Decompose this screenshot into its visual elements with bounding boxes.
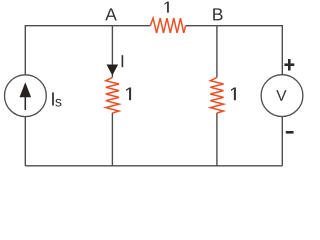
wire R2 bottom terminal down to bottom wire [111,113,113,166]
wire right: voltmeter down to bottom-right corner [281,117,283,166]
wire R3 bottom terminal down to bottom wire [216,113,218,166]
node A label [105,8,117,20]
plus terminal mark [284,59,294,71]
current source arrow (points up) [20,82,32,110]
current label I [122,55,124,67]
label Is: I [52,92,54,105]
wire top: R1 right terminal to node B [186,25,217,27]
resistor R1 (horizontal, between A and B) [150,18,185,33]
label Is: s subscript [55,99,61,107]
wire left: top corner down to current source [24,25,26,75]
wire top: left corner to node A [25,25,112,27]
wire bottom: bottom-left corner to bottom-right corner [25,165,282,167]
voltmeter V letter [276,90,286,101]
node B label [213,8,222,20]
wire right: top-right corner down to voltmeter [281,25,283,75]
wire node B branch down to R3 top terminal [216,26,218,78]
minus terminal mark [286,131,294,134]
wire top: node A to R1 left terminal [112,25,150,27]
R2 value label 1 [126,87,131,100]
wire top: node B to top-right corner [217,25,282,27]
voltmeter V (circle) [261,75,303,117]
resistor R3 (vertical, node B branch) [210,77,223,113]
current arrow I (points down on node A branch) [107,65,119,76]
current source Is (circle) [5,75,47,117]
R3 value label 1 [231,87,236,100]
wire node A branch down to R2 top terminal [111,26,113,78]
R1 value label 1 [165,2,169,13]
wire left: current source down to bottom-left corner [24,117,26,166]
resistor R2 (vertical, node A branch) [106,77,119,113]
